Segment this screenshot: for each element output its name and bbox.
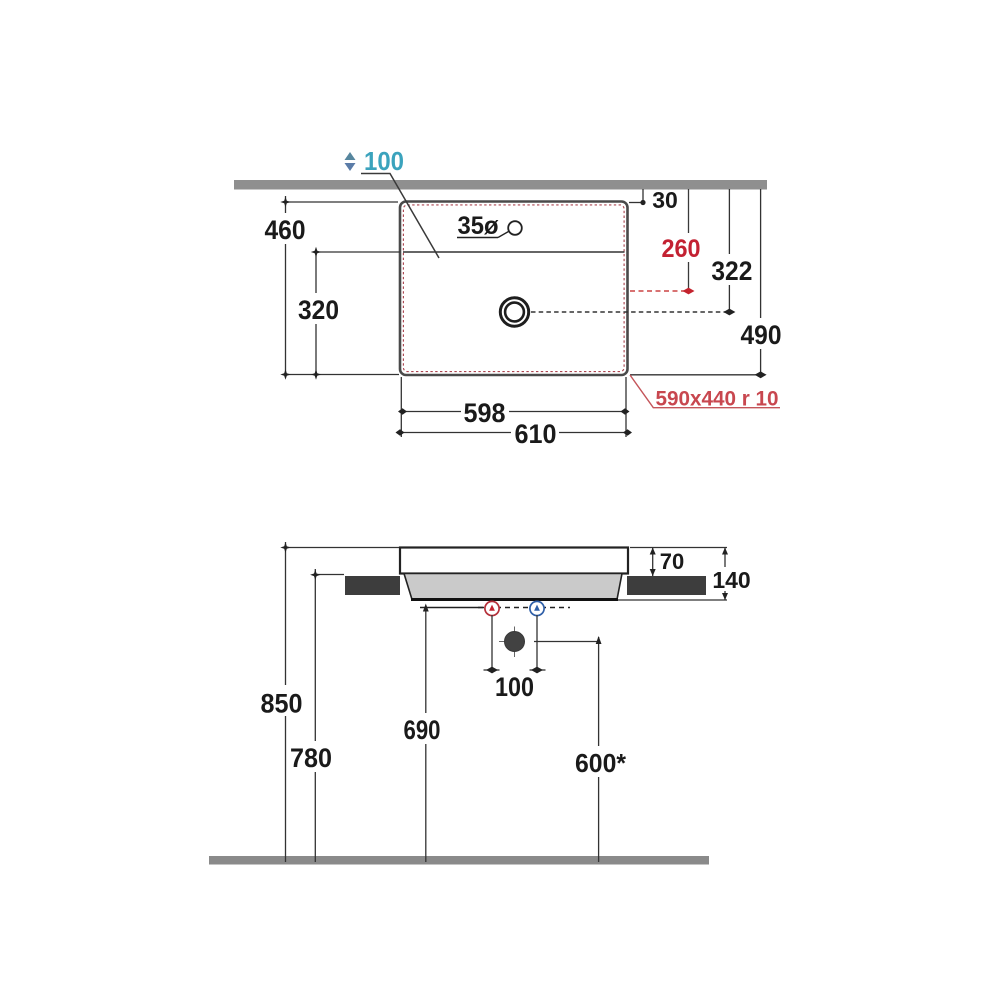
faucet hole circle [508,221,522,235]
basin upper body rect [400,548,628,574]
dimension 320 (left inner, vertical) [295,247,400,380]
svg-text:600*: 600* [575,748,627,778]
dimension 598 (bottom, horizontal) [398,377,630,437]
red dashed rect 590x440 r10 [403,205,624,372]
cold water symbol (blue) [530,601,544,615]
wall bar (top) [234,180,767,190]
svg-text:30: 30 [652,187,678,213]
red note 590x440 r 10 with leader [630,375,780,411]
svg-text:100: 100 [364,146,404,176]
dimension 260 (red, vertical) [630,189,705,294]
floor bar [209,856,709,865]
red dashed leader + arrow [630,290,684,292]
washbasin outline (top view) [400,202,628,376]
thick bottom edge of trapezoid [411,598,618,601]
basin lower trapezoid [404,574,622,600]
dimension 140 [618,548,754,601]
dimension 322 (vertical) [531,189,755,315]
svg-text:260: 260 [662,235,701,263]
label 35ø with underline and leader [457,212,509,240]
hot water symbol (red) [485,601,499,615]
dimension 70 [630,548,727,577]
dimension 780 (floor to countertop) [287,569,344,862]
svg-text:460: 460 [265,215,306,245]
svg-text:780: 780 [290,743,332,773]
svg-text:490: 490 [741,320,782,350]
svg-text:598: 598 [464,398,506,428]
inner basin edge line [403,251,625,253]
dimension 600* (floor to drain) [534,636,630,862]
svg-text:320: 320 [298,295,339,325]
svg-text:140: 140 [712,567,750,593]
svg-text:610: 610 [515,419,557,449]
svg-text:35ø: 35ø [458,212,500,240]
countertop right (section) [627,576,706,595]
dimension 610 (bottom, horizontal) [396,418,633,449]
drain outlet (filled circle) [499,627,525,658]
dimension 690 (floor to basin bottom) [399,604,446,863]
leader line from label 100 to basin inner edge [361,174,439,259]
dimension 490 (vertical) [630,189,784,378]
black dashed leader from drain to 322 line + arrow [531,311,725,313]
svg-text:590x440 r 10: 590x440 r 10 [656,388,779,411]
svg-text:850: 850 [261,689,303,719]
dimension 460 (left, vertical) [262,196,399,380]
svg-text:70: 70 [660,549,684,574]
faucet axis line (solid + dashed) [420,607,484,609]
dimension 100 (below faucets) [484,615,546,702]
label 100 (cyan) with up-down arrow icon [345,146,405,176]
dimension 850 (floor to rim) [258,542,399,862]
countertop left (section) [345,576,400,595]
drain hole (double circle) [500,298,528,326]
svg-text:690: 690 [404,715,441,745]
svg-text:100: 100 [495,672,534,702]
dimension 30 (top right short) [629,187,678,213]
svg-text:322: 322 [711,256,752,286]
